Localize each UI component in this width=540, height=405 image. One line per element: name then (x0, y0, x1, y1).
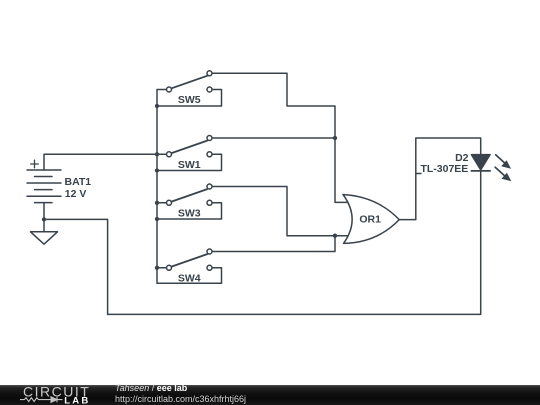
wire SW1 output (213, 137, 336, 139)
wire ground return bottom + LED cathode riser (108, 171, 481, 315)
wire switch bus (156, 106, 158, 268)
switch SW3 (167, 184, 213, 219)
junction bus SW1 row (155, 152, 159, 156)
footer bar (0, 385, 540, 405)
wire OR output to LED anode (399, 138, 481, 220)
svg-text:OR1: OR1 (359, 213, 381, 225)
junction bus SW3 loop (155, 217, 159, 221)
wire battery+ to switch bus (44, 154, 157, 170)
wire SW5 output (213, 73, 336, 138)
junction bus SW5 (155, 104, 159, 108)
wire ground return left segment (44, 219, 108, 314)
junction OR input B (333, 234, 337, 238)
led light arrow 2 (495, 167, 511, 181)
label tick TL-307EE (416, 173, 421, 175)
junction bus SW4 row (155, 266, 159, 270)
wire SW4 output (213, 236, 336, 252)
junction battery-/ground (42, 217, 46, 221)
junction bus SW3 row (155, 201, 159, 205)
svg-text:12 V: 12 V (65, 188, 87, 200)
junction bus SW1 loop (155, 168, 159, 172)
wire SW1 left leg (157, 153, 166, 155)
switch SW1 (167, 136, 213, 171)
svg-text:LAB: LAB (64, 396, 90, 405)
wire SW3 left leg (157, 202, 166, 204)
wire SW5 left leg (157, 90, 166, 107)
wire battery- down (43, 203, 45, 220)
svg-text:BAT1: BAT1 (65, 176, 92, 188)
wire SW4 loop (157, 268, 222, 284)
wire SW5 loop (157, 90, 222, 107)
svg-text:SW3: SW3 (178, 207, 201, 219)
ground (31, 219, 58, 244)
wire SW3 loop (157, 203, 222, 219)
footer credits (115, 384, 187, 393)
wire SW4 left leg (157, 267, 166, 269)
wire SW1 loop (157, 154, 222, 170)
wire OR input A drop (335, 138, 349, 202)
led light arrow 1 (496, 155, 511, 169)
svg-text:SW4: SW4 (178, 272, 201, 284)
circuitlab logo (0, 383, 110, 405)
wire SW3 output (213, 187, 350, 236)
switch SW4 (167, 249, 213, 284)
junction OR input A (333, 136, 337, 140)
switch SW5 (167, 71, 213, 106)
or-gate OR1 (343, 195, 399, 244)
battery BAT1 12 V (27, 160, 91, 202)
svg-text:SW1: SW1 (178, 159, 201, 171)
led D2 TL-307EE (420, 152, 490, 175)
svg-text:SW5: SW5 (178, 94, 201, 106)
svg-text:TL-307EE: TL-307EE (420, 163, 468, 175)
